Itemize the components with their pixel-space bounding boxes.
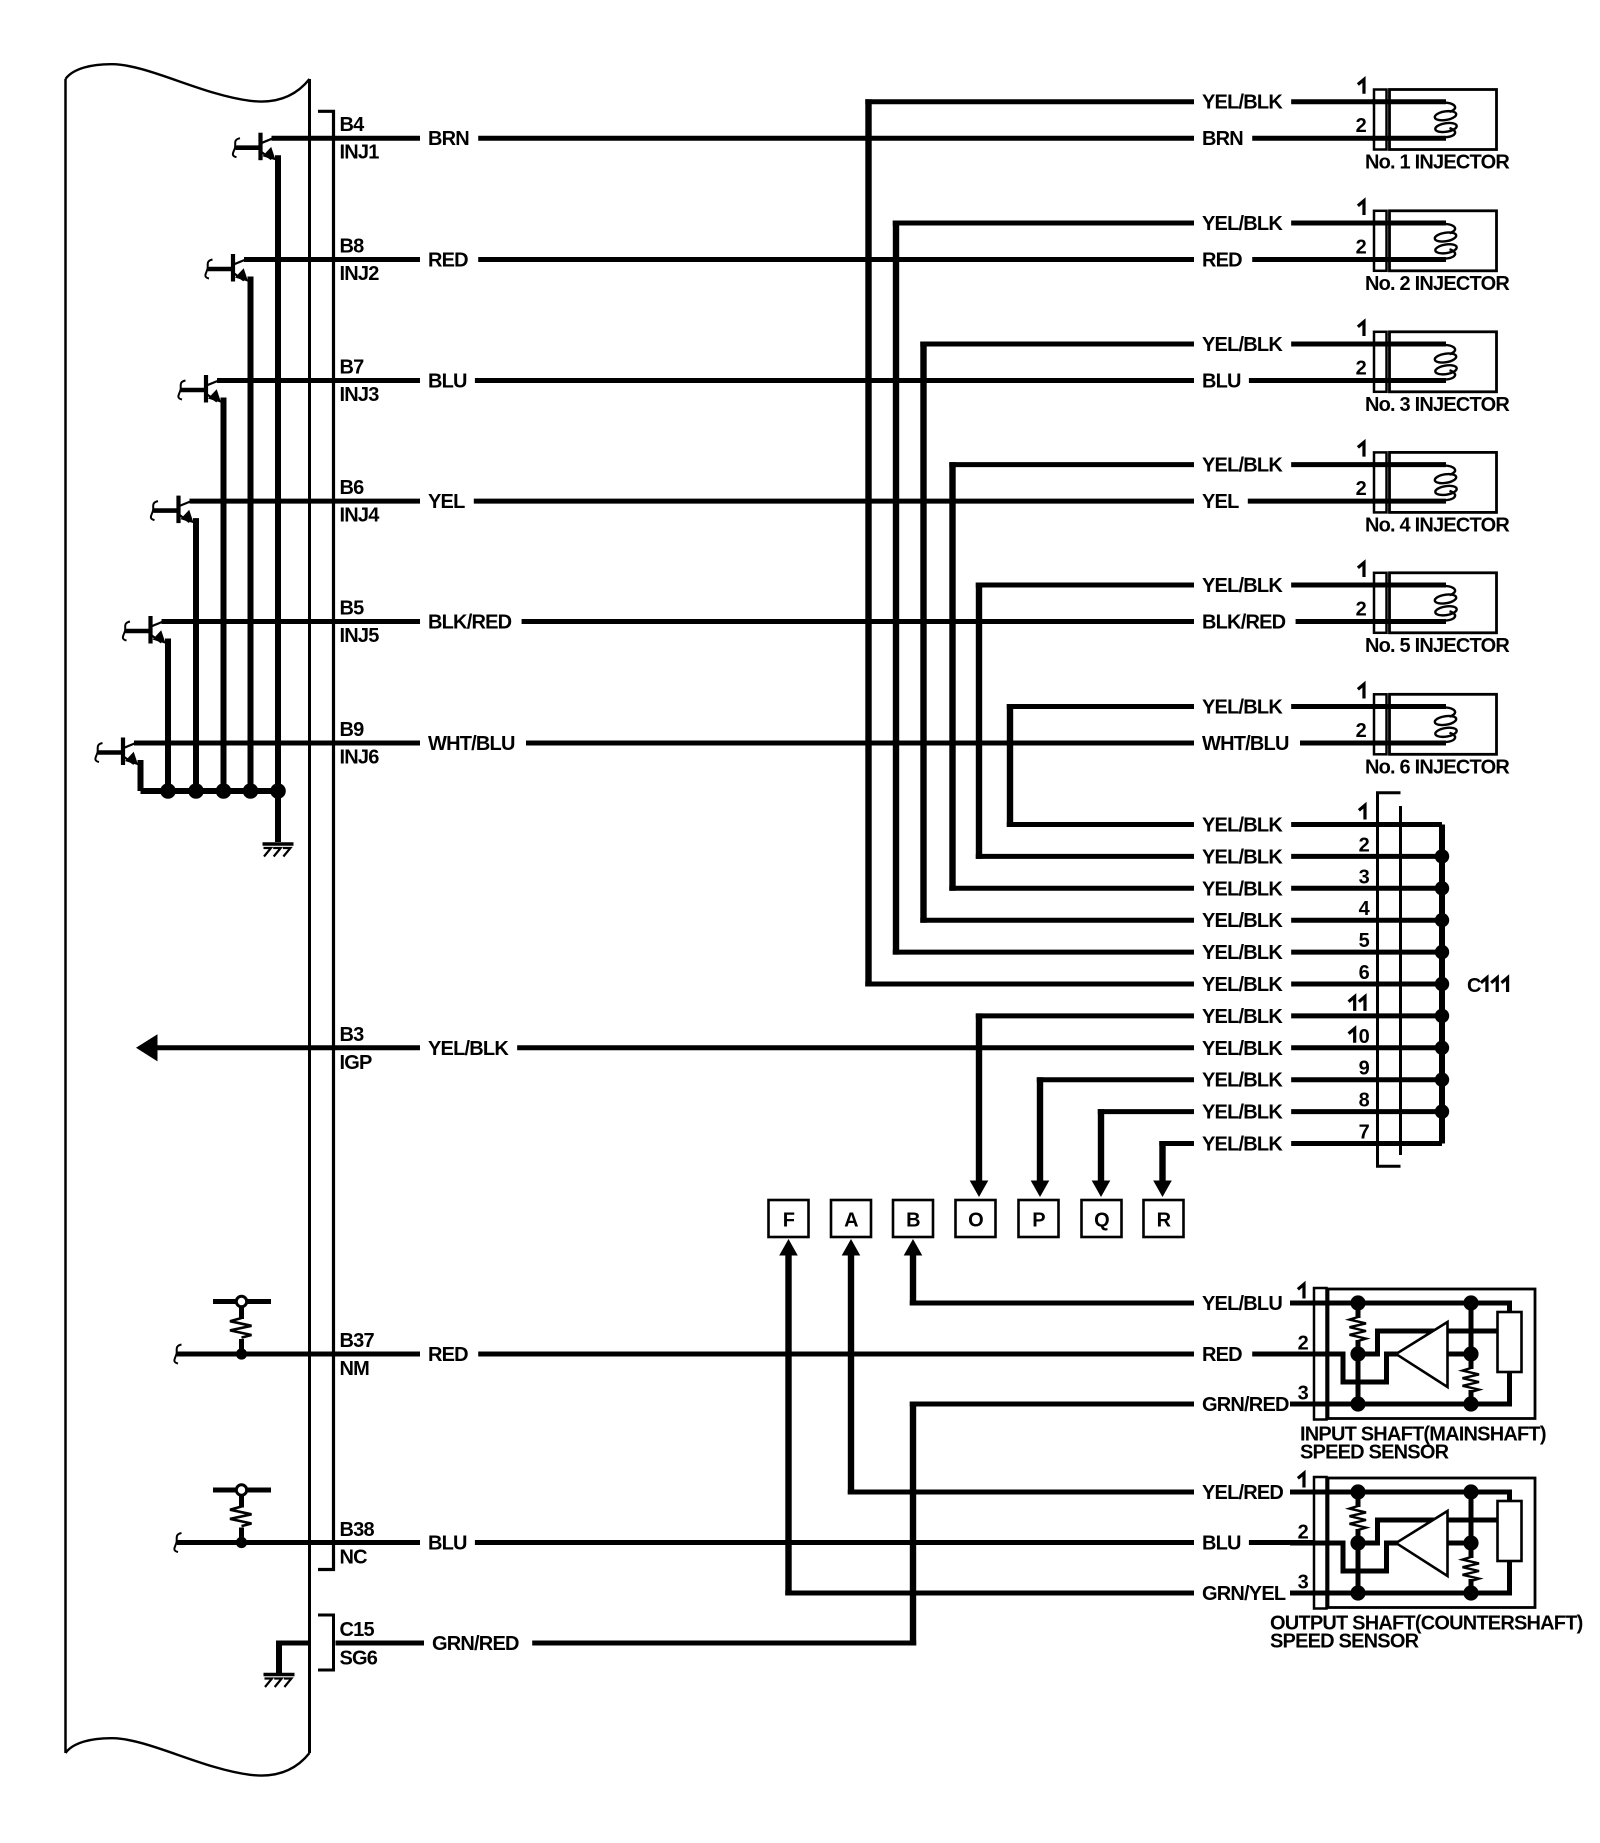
up arrowhead into connector box F — [779, 1239, 798, 1256]
svg-text:YEL/BLK: YEL/BLK — [1202, 815, 1283, 837]
svg-text:YEL/BLK: YEL/BLK — [428, 1038, 509, 1060]
wire YEL/BLK to C111 pin 6 — [865, 982, 1442, 987]
svg-text:No. 4 INJECTOR: No. 4 INJECTOR — [1365, 515, 1510, 537]
pin 1 label of output shaft speed sensor — [1298, 1473, 1304, 1487]
svg-text:R: R — [1157, 1210, 1172, 1232]
svg-text:0: 0 — [1359, 1026, 1370, 1048]
wire squiggle at Q6 (INJ6) base — [95, 743, 102, 762]
output shaft speed sensor: internal circuit — [1290, 1477, 1535, 1609]
right wire color label YEL (injector 4) — [1194, 489, 1248, 513]
svg-text:WHT/BLU: WHT/BLU — [1202, 733, 1289, 755]
wire YEL/BLK to C111 pin 5 — [893, 950, 1442, 955]
connector box Q — [1082, 1200, 1122, 1237]
vertical YEL/BLK bus wire from injector 6 pin 1 to C111 — [1007, 704, 1013, 827]
emitter wire of INJ6 transistor down to common node — [138, 760, 144, 791]
svg-text:B5: B5 — [340, 598, 365, 620]
left wire color label WHT/BLU (B9) — [420, 731, 526, 755]
svg-text:YEL/BLK: YEL/BLK — [1202, 455, 1283, 477]
connector box A — [831, 1200, 871, 1237]
wire YEL/RED from connector A to output shaft speed sensor pin 1 — [848, 1490, 1316, 1495]
wire YEL/BLK to C111 pin 1 — [1007, 822, 1442, 827]
svg-text:INJ5: INJ5 — [340, 625, 380, 647]
wire YEL/BLK to C111 pin 11 — [976, 1013, 1442, 1018]
vertical wire up to connector A — [848, 1251, 854, 1495]
left wire color label BRN (B4) — [420, 126, 478, 150]
wire BRN from ECM B4 to No. 1 injector pin 2 — [272, 136, 1377, 141]
vertical YEL/BLK bus wire from injector 4 pin 1 to C111 — [949, 462, 955, 891]
svg-text:YEL/RED: YEL/RED — [1202, 1482, 1283, 1504]
C111 connector outer bracket — [1378, 793, 1401, 1167]
svg-text:F: F — [783, 1210, 795, 1232]
wire color label YEL/RED — [1194, 1480, 1296, 1504]
svg-text:9: 9 — [1359, 1058, 1370, 1080]
wire color label YEL/BLK (C111 pin 9) — [1194, 1068, 1291, 1092]
junction dot C111 pin 5 — [1435, 945, 1449, 959]
down arrowhead into connector box at x=1162.5 — [1153, 1181, 1172, 1198]
wire YEL/BLK to C111 pin 9 — [1037, 1077, 1442, 1082]
svg-text:6: 6 — [1359, 962, 1370, 984]
svg-text:2: 2 — [1356, 478, 1367, 500]
connector box F — [769, 1200, 809, 1237]
svg-text:YEL/BLK: YEL/BLK — [1202, 974, 1283, 996]
wire color label YEL/BLK (C111 pin 1) — [1194, 813, 1291, 837]
wire color label YEL/BLK (C111 pin 2) — [1194, 844, 1291, 868]
transistor Q3 (INJ3) (injector driver) — [181, 375, 221, 403]
wire from common node to ground — [275, 791, 281, 842]
ECU box right edge — [308, 79, 311, 1753]
wire BLU from ECM B7 to No. 3 injector pin 2 — [217, 378, 1376, 383]
svg-text:RED: RED — [428, 1344, 468, 1366]
up arrowhead into connector box A — [842, 1239, 861, 1256]
connector box P — [1019, 1200, 1059, 1237]
wire squiggle at Q1 (INJ1) base — [233, 138, 240, 157]
right wire color label BLU — [1194, 1531, 1249, 1555]
svg-text:YEL/BLK: YEL/BLK — [1202, 1134, 1283, 1156]
wire color label GRN/RED — [1194, 1392, 1302, 1416]
svg-text:3: 3 — [1298, 1383, 1309, 1405]
wire color label YEL/BLK (injector 3 pin 1) — [1194, 332, 1291, 356]
svg-text:No. 5 INJECTOR: No. 5 INJECTOR — [1365, 635, 1510, 657]
svg-text:YEL: YEL — [428, 491, 465, 513]
wire WHT/BLU from ECM B9 to No. 6 injector pin 2 — [134, 741, 1376, 746]
vertical wire up to connector F — [785, 1251, 791, 1596]
wire color label YEL/BLK (injector 5 pin 1) — [1194, 573, 1291, 597]
wire color label YEL/BLK (injector 4 pin 1) — [1194, 453, 1291, 477]
ECU box torn top edge — [66, 64, 310, 101]
svg-text:No. 1 INJECTOR: No. 1 INJECTOR — [1365, 152, 1510, 174]
right wire color label RED (injector 2) — [1194, 248, 1252, 272]
vertical link wire GRN/RED — [910, 1402, 916, 1646]
wire color label YEL/BLK (C111 pin 6) — [1194, 972, 1291, 996]
No. 5 injector: connector pins and coil — [1372, 573, 1497, 633]
svg-text:RED: RED — [428, 250, 468, 272]
svg-text:2: 2 — [1356, 599, 1367, 621]
junction dot C111 pin 11 — [1435, 1009, 1449, 1023]
svg-text:4: 4 — [1359, 898, 1371, 920]
pin 1 label of No. 3 injector — [1358, 322, 1364, 336]
svg-text:YEL/BLU: YEL/BLU — [1202, 1293, 1282, 1315]
pin 1 label of No. 4 injector — [1358, 442, 1364, 456]
wire YEL/BLK to C111 pin 8 — [1098, 1109, 1442, 1114]
svg-text:B9: B9 — [340, 719, 365, 741]
left wire color label RED (B8) — [420, 248, 478, 272]
wire YEL/BLK to No. 3 injector pin 1 — [920, 342, 1376, 347]
junction dot C111 pin 9 — [1435, 1073, 1449, 1087]
vertical YEL/BLK bus wire from injector 3 pin 1 to C111 — [920, 342, 926, 923]
transistor Q6 (INJ6) (injector driver) — [98, 738, 138, 766]
pin 1 label of No. 2 injector — [1358, 201, 1364, 215]
svg-text:YEL: YEL — [1202, 491, 1239, 513]
svg-text:5: 5 — [1359, 930, 1370, 952]
svg-text:GRN/RED: GRN/RED — [432, 1633, 519, 1655]
pin 1 label of input shaft speed sensor — [1298, 1284, 1304, 1298]
C111 common bus joining all pins — [1439, 825, 1445, 1144]
wire YEL/BLK to No. 1 injector pin 1 — [865, 99, 1376, 104]
pull-up resistor network at B38 NC — [213, 1485, 271, 1548]
junction dot on common emitter node — [270, 783, 286, 799]
connector box O — [956, 1200, 996, 1237]
svg-text:C: C — [1467, 975, 1481, 997]
No. 6 injector: connector pins and coil — [1372, 694, 1497, 754]
transistor Q1 (INJ1) (injector driver) — [236, 133, 276, 161]
pin 1 label of No. 6 injector — [1358, 684, 1364, 698]
wire from C15 row down to ground — [276, 1643, 282, 1673]
emitter wire of INJ2 transistor down to common node — [248, 277, 254, 792]
wire squiggle at Q2 (INJ2) base — [205, 260, 212, 279]
svg-text:SPEED SENSOR: SPEED SENSOR — [1270, 1631, 1420, 1653]
wire YEL/BLK from ECM B3 (IGP) to C111 pin 10 — [152, 1045, 1442, 1050]
down arrowhead into connector box at x=1101 — [1092, 1181, 1111, 1198]
svg-text:BRN: BRN — [428, 128, 469, 150]
svg-text:B37: B37 — [340, 1330, 375, 1352]
svg-text:3: 3 — [1359, 866, 1370, 888]
wire YEL from ECM B6 to No. 4 injector pin 2 — [190, 499, 1377, 504]
svg-text:A: A — [844, 1210, 858, 1232]
emitter wire of INJ5 transistor down to common node — [165, 639, 171, 792]
right wire color label RED — [1194, 1342, 1252, 1366]
wire YEL/BLK to No. 5 injector pin 1 — [976, 583, 1376, 588]
No. 4 injector: connector pins and coil — [1372, 452, 1497, 512]
svg-text:YEL/BLK: YEL/BLK — [1202, 334, 1283, 356]
svg-text:No. 2 INJECTOR: No. 2 INJECTOR — [1365, 273, 1510, 295]
down arrowhead into connector box at x=979 — [970, 1181, 989, 1198]
wire squiggle at B38 wire left end — [174, 1533, 181, 1552]
emitter wire of INJ1 transistor down to common node — [275, 155, 281, 791]
svg-text:BLU: BLU — [1202, 371, 1241, 393]
wire color label YEL/BLK (C111 pin 5) — [1194, 940, 1291, 964]
svg-text:2: 2 — [1359, 834, 1370, 856]
left wire color label GRN/RED (C15 SG6) — [424, 1631, 532, 1655]
C111 connector inner bar — [1399, 806, 1402, 1155]
left wire color label RED (B37 NM) — [420, 1342, 478, 1366]
connector box R — [1144, 1200, 1184, 1237]
wire color label YEL/BLK (C111 pin 11) — [1194, 1004, 1291, 1028]
svg-text:YEL/BLK: YEL/BLK — [1202, 878, 1283, 900]
svg-text:YEL/BLK: YEL/BLK — [1202, 575, 1283, 597]
svg-text:B4: B4 — [340, 114, 366, 136]
C111 pin number 11 — [1349, 997, 1365, 1011]
emitter wire of INJ4 transistor down to common node — [193, 518, 199, 791]
svg-text:2: 2 — [1356, 237, 1367, 259]
left wire color label YEL/BLK (B3 IGP) — [420, 1036, 517, 1060]
svg-text:INJ2: INJ2 — [340, 263, 380, 285]
No. 2 injector: connector pins and coil — [1372, 211, 1497, 271]
input shaft speed sensor: internal circuit — [1290, 1288, 1535, 1420]
junction dot C111 pin 10 — [1435, 1041, 1449, 1055]
right wire color label BLK/RED (injector 5) — [1194, 610, 1296, 634]
svg-text:2: 2 — [1356, 115, 1367, 137]
svg-text:2: 2 — [1356, 720, 1367, 742]
right wire color label WHT/BLU (injector 6) — [1194, 731, 1300, 755]
svg-text:No. 6 INJECTOR: No. 6 INJECTOR — [1365, 757, 1510, 779]
C111 pin number 10 — [1349, 1026, 1370, 1048]
wire YEL/BLK to No. 2 injector pin 1 — [893, 221, 1376, 226]
junction dot C111 pin 8 — [1435, 1104, 1449, 1118]
wire YEL/BLK to C111 pin 7 — [1159, 1141, 1442, 1146]
wire RED from ECM B37 (NM) to input shaft speed sensor pin 2 — [177, 1352, 1316, 1357]
vertical YEL/BLK bus wire from injector 5 pin 1 to C111 — [976, 583, 982, 859]
wire squiggle at Q3 (INJ3) base — [178, 381, 185, 400]
svg-text:INJ3: INJ3 — [340, 384, 380, 406]
transistor Q5 (INJ5) (injector driver) — [126, 616, 166, 644]
svg-text:YEL/BLK: YEL/BLK — [1202, 1038, 1283, 1060]
left wire color label YEL (B6) — [420, 489, 474, 513]
svg-text:YEL/BLK: YEL/BLK — [1202, 942, 1283, 964]
svg-text:C15: C15 — [340, 1619, 375, 1641]
wire squiggle at Q5 (INJ5) base — [123, 622, 130, 641]
wire BLU from ECM B38 (NC) to output shaft speed sensor pin 2 — [177, 1540, 1316, 1545]
left wire color label BLU (B7) — [420, 369, 475, 393]
svg-text:B8: B8 — [340, 236, 365, 258]
svg-text:WHT/BLU: WHT/BLU — [428, 733, 515, 755]
right wire color label BRN (injector 1) — [1194, 126, 1252, 150]
wire color label YEL/BLK (C111 pin 4) — [1194, 908, 1291, 932]
left arrowhead on IGP wire (to power source) — [136, 1034, 158, 1061]
ECM connector bracket (pins B4-B38) — [318, 111, 334, 1569]
svg-text:INJ6: INJ6 — [340, 747, 380, 769]
svg-text:YEL/BLK: YEL/BLK — [1202, 1006, 1283, 1028]
ECM connector bracket (pin C15) — [318, 1615, 334, 1670]
svg-text:BLU: BLU — [428, 1533, 467, 1555]
junction dot on common emitter node — [243, 783, 259, 799]
connector box B — [893, 1200, 933, 1237]
wire YEL/BLK to No. 4 injector pin 1 — [949, 462, 1376, 467]
svg-text:GRN/RED: GRN/RED — [1202, 1394, 1289, 1416]
wire color label YEL/BLU — [1194, 1291, 1292, 1315]
svg-text:BLK/RED: BLK/RED — [428, 612, 512, 634]
wire squiggle at B37 wire left end — [174, 1345, 181, 1364]
ECU box torn bottom edge — [66, 1738, 310, 1775]
C111 pin number 1 — [1359, 805, 1365, 819]
pull-up resistor network at B37 NM — [213, 1296, 271, 1359]
svg-text:SPEED SENSOR: SPEED SENSOR — [1300, 1442, 1450, 1464]
vertical wire from C111 pin 11 down to connector O — [976, 1013, 982, 1185]
ground (power ground of injector drivers) — [263, 844, 294, 857]
up arrowhead into connector box B — [904, 1239, 923, 1256]
svg-text:O: O — [968, 1210, 983, 1232]
svg-text:IGP: IGP — [340, 1052, 373, 1074]
junction dot C111 pin 2 — [1435, 849, 1449, 863]
svg-text:YEL/BLK: YEL/BLK — [1202, 846, 1283, 868]
pin 1 label of No. 1 injector — [1358, 79, 1364, 93]
wire color label YEL/BLK (C111 pin 8) — [1194, 1100, 1291, 1124]
svg-text:NC: NC — [340, 1547, 368, 1569]
svg-text:INJ1: INJ1 — [340, 142, 380, 164]
down arrowhead into connector box at x=1040 — [1031, 1181, 1050, 1198]
transistor Q4 (INJ4) (injector driver) — [154, 496, 194, 524]
svg-text:NM: NM — [340, 1358, 370, 1380]
svg-text:BRN: BRN — [1202, 128, 1243, 150]
emitter wire of INJ3 transistor down to common node — [221, 398, 227, 792]
wire color label YEL/BLK (C111 pin 7) — [1194, 1132, 1291, 1156]
svg-text:BLK/RED: BLK/RED — [1202, 612, 1286, 634]
svg-text:RED: RED — [1202, 1344, 1242, 1366]
vertical YEL/BLK bus wire from injector 1 pin 1 to C111 — [865, 99, 871, 986]
wire color label GRN/YEL — [1194, 1581, 1298, 1605]
ECU box left edge (torn page) — [64, 79, 67, 1753]
vertical wire from C111 pin 9 down to connector P — [1037, 1077, 1043, 1185]
svg-text:BLU: BLU — [428, 371, 467, 393]
wire color label YEL/BLK (injector 6 pin 1) — [1194, 695, 1291, 719]
svg-text:B3: B3 — [340, 1024, 365, 1046]
ground (sensor ground SG6) — [264, 1675, 295, 1688]
svg-text:No. 3 INJECTOR: No. 3 INJECTOR — [1365, 394, 1510, 416]
wire YEL/BLK to C111 pin 4 — [920, 918, 1442, 923]
transistor Q2 (INJ2) (injector driver) — [208, 254, 248, 282]
svg-text:YEL/BLK: YEL/BLK — [1202, 213, 1283, 235]
junction dot on common emitter node — [160, 783, 176, 799]
svg-text:7: 7 — [1359, 1122, 1370, 1144]
left wire color label BLK/RED (B5) — [420, 610, 522, 634]
svg-text:2: 2 — [1298, 1522, 1309, 1544]
wire color label YEL/BLK (C111 pin 3) — [1194, 876, 1291, 900]
svg-text:YEL/BLK: YEL/BLK — [1202, 697, 1283, 719]
vertical wire from C111 pin 7 down to connector R — [1159, 1141, 1165, 1185]
svg-text:Q: Q — [1094, 1210, 1109, 1232]
connector designation C111 — [1467, 975, 1508, 997]
vertical YEL/BLK bus wire from injector 2 pin 1 to C111 — [893, 221, 899, 955]
No. 1 injector: connector pins and coil — [1372, 90, 1497, 150]
svg-text:B38: B38 — [340, 1519, 375, 1541]
junction dot on common emitter node — [188, 783, 204, 799]
svg-text:INJ4: INJ4 — [340, 505, 381, 527]
svg-text:3: 3 — [1298, 1572, 1309, 1594]
vertical wire from C111 pin 8 down to connector Q — [1098, 1109, 1104, 1185]
left wire color label BLU (B38 NC) — [420, 1531, 475, 1555]
wire RED from ECM B8 to No. 2 injector pin 2 — [244, 257, 1376, 262]
wire YEL/BLK to No. 6 injector pin 1 — [1007, 704, 1376, 709]
svg-text:2: 2 — [1298, 1333, 1309, 1355]
wire GRN/RED from ECM C15 (SG6) to input shaft speed sensor pin 3 — [910, 1402, 1316, 1407]
junction dot on common emitter node — [216, 783, 232, 799]
wire YEL/BLU from connector B to input shaft speed sensor pin 1 — [910, 1301, 1316, 1306]
svg-text:P: P — [1032, 1210, 1045, 1232]
svg-text:2: 2 — [1356, 358, 1367, 380]
wire YEL/BLK to C111 pin 3 — [949, 886, 1442, 891]
junction dot C111 pin 6 — [1435, 977, 1449, 991]
svg-text:RED: RED — [1202, 250, 1242, 272]
wire YEL/BLK to C111 pin 2 — [976, 854, 1442, 859]
svg-text:SG6: SG6 — [340, 1648, 378, 1670]
wire color label YEL/BLK (injector 2 pin 1) — [1194, 211, 1291, 235]
svg-text:GRN/YEL: GRN/YEL — [1202, 1583, 1286, 1605]
svg-text:B6: B6 — [340, 477, 365, 499]
svg-text:YEL/BLK: YEL/BLK — [1202, 910, 1283, 932]
svg-text:B: B — [906, 1210, 920, 1232]
svg-text:YEL/BLK: YEL/BLK — [1202, 92, 1283, 114]
svg-text:BLU: BLU — [1202, 1533, 1241, 1555]
svg-text:YEL/BLK: YEL/BLK — [1202, 1070, 1283, 1092]
svg-text:8: 8 — [1359, 1090, 1370, 1112]
svg-text:YEL/BLK: YEL/BLK — [1202, 1102, 1283, 1124]
junction dot C111 pin 4 — [1435, 913, 1449, 927]
wire squiggle at Q4 (INJ4) base — [151, 501, 158, 520]
right wire color label BLU (injector 3) — [1194, 369, 1249, 393]
wire color label YEL/BLK (C111 pin 10) — [1194, 1036, 1291, 1060]
wire GRN/YEL from connector F to output shaft speed sensor pin 3 — [785, 1591, 1316, 1596]
wire GRN/RED from ECM C15 (SG6) — [276, 1641, 311, 1646]
junction dot C111 pin 3 — [1435, 881, 1449, 895]
No. 3 injector: connector pins and coil — [1372, 332, 1497, 392]
common emitter junction wire — [141, 788, 279, 794]
wire BLK/RED from ECM B5 to No. 5 injector pin 2 — [162, 619, 1377, 624]
svg-text:B7: B7 — [340, 357, 365, 379]
pin 1 label of No. 5 injector — [1358, 563, 1364, 577]
wire color label YEL/BLK (injector 1 pin 1) — [1194, 90, 1291, 114]
vertical wire up to connector B — [910, 1251, 916, 1306]
